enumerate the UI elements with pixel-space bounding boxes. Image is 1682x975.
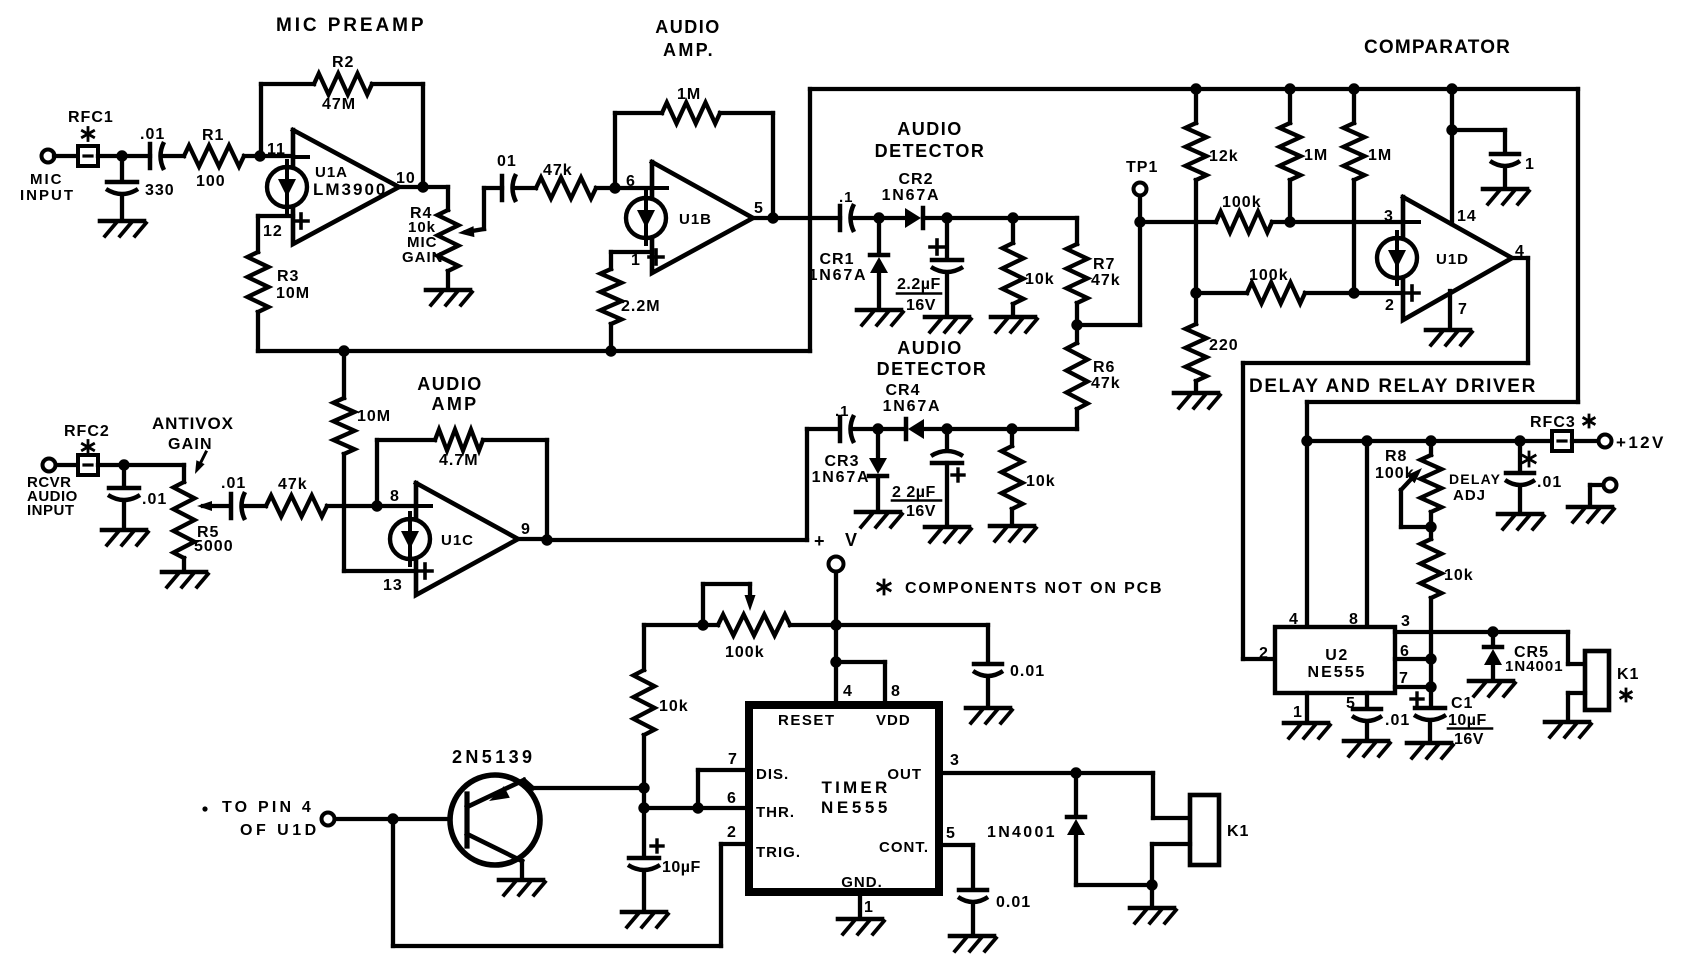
node pin4 junction — [830, 656, 841, 667]
resistor 1M a — [1280, 89, 1301, 222]
pin label 14 — [1457, 208, 1477, 225]
node emitter junction — [638, 782, 649, 793]
wire pin14 — [1450, 89, 1454, 224]
terminal RCVR input — [43, 459, 56, 472]
diode CR5 1N4001 — [1484, 632, 1502, 679]
capacitor .01 rcvr — [108, 465, 140, 528]
svg-text:16V: 16V — [1454, 731, 1484, 748]
svg-text:1N67A: 1N67A — [809, 267, 868, 284]
diode CR4 1N67A — [906, 419, 924, 439]
wire pin4 stub — [834, 625, 838, 705]
inductor RFC2 — [78, 455, 98, 475]
wire R2 feedback loop — [261, 84, 423, 187]
wire +V drop — [834, 572, 838, 625]
node 10k junction upper — [1007, 212, 1018, 223]
wire to R4 top — [446, 187, 450, 210]
svg-text:CR1: CR1 — [819, 251, 854, 268]
resistor 10k upper det — [1003, 218, 1024, 315]
pin label 5 — [754, 200, 764, 217]
pin label 6 timer — [727, 790, 737, 807]
svg-text:100: 100 — [196, 173, 226, 190]
label R8 100k — [1375, 448, 1415, 482]
svg-text:C1: C1 — [1451, 695, 1473, 712]
pin label 7 timer — [728, 751, 738, 768]
svg-text:ANTIVOX: ANTIVOX — [152, 414, 234, 433]
resistor 10k left — [634, 670, 655, 735]
svg-text:DELAY: DELAY — [1449, 471, 1501, 487]
section title AUDIO DETECTOR lower — [877, 338, 988, 379]
svg-text:DELAY AND RELAY DRIVER: DELAY AND RELAY DRIVER — [1249, 376, 1537, 397]
label 1M — [677, 86, 701, 103]
node cap1 junction — [1446, 124, 1457, 135]
svg-text:+12V: +12V — [1616, 433, 1666, 452]
label VDD — [876, 712, 911, 729]
wire pin8 stub — [836, 662, 885, 705]
svg-text:2N5139: 2N5139 — [452, 747, 535, 767]
svg-text:47k: 47k — [278, 476, 308, 493]
label .01 mic — [140, 126, 165, 143]
pin label 7 U1D — [1458, 301, 1468, 318]
label GND. — [841, 874, 883, 891]
ground under C1 — [1407, 743, 1453, 758]
label DIS. — [756, 766, 789, 783]
svg-text:330: 330 — [145, 182, 175, 199]
svg-text:U1B: U1B — [679, 211, 712, 228]
label 10k lower det — [1026, 473, 1056, 490]
asterisk RFC2 — [82, 441, 93, 454]
wire 100k b line — [1196, 291, 1403, 295]
svg-text:3: 3 — [950, 752, 960, 769]
pin label 8 U1C — [390, 488, 400, 505]
label THR. — [756, 804, 795, 821]
ground under 220 — [1174, 393, 1220, 408]
node A junction — [116, 150, 127, 161]
svg-text:THR.: THR. — [756, 804, 795, 821]
pin label 1 timer — [864, 899, 874, 916]
label 0.01 cont — [996, 894, 1031, 911]
wire CONT path — [939, 845, 973, 888]
wire 4.7M loop — [377, 440, 547, 540]
wire gnd post — [1590, 485, 1603, 505]
wire R4 to ground — [446, 271, 450, 288]
ground under cap 1 — [1483, 189, 1529, 204]
U1A minus — [296, 155, 308, 159]
section title MIC PREAMP — [276, 15, 426, 36]
svg-text:8: 8 — [390, 488, 400, 505]
label 10k upper det — [1025, 271, 1055, 288]
ic U2 NE555 box — [1275, 627, 1395, 693]
asterisk K1 — [1621, 689, 1631, 701]
label CR2 1N67A — [882, 171, 941, 204]
svg-text:RFC1: RFC1 — [68, 109, 114, 126]
node rail 12k — [1190, 83, 1201, 94]
wire U1B output — [753, 216, 840, 220]
resistor R2 47M — [314, 74, 372, 95]
wire U1C output — [518, 537, 547, 541]
pin label 13 — [383, 577, 403, 594]
svg-text:10M: 10M — [276, 285, 310, 302]
section title AUDIO AMP. — [655, 17, 721, 60]
svg-text:10µF: 10µF — [662, 859, 701, 876]
svg-text:.1: .1 — [835, 403, 850, 420]
U1D plus — [1405, 286, 1419, 300]
label R7 47k — [1091, 256, 1121, 289]
svg-text:3: 3 — [1401, 613, 1411, 630]
wire CR1 to ground — [877, 273, 881, 308]
R8 wiper — [1401, 468, 1431, 527]
svg-text:CR4: CR4 — [885, 382, 920, 399]
svg-text:2.2M: 2.2M — [621, 298, 661, 315]
node K1 bottom junction — [1146, 879, 1157, 890]
pin label 6 — [626, 173, 636, 190]
node pin14 rail — [1446, 83, 1457, 94]
wire pin12 to R3 — [258, 216, 293, 252]
svg-text:OF U1D: OF U1D — [240, 822, 320, 839]
pin label 10 — [396, 170, 416, 187]
label 0.01 top — [1010, 663, 1045, 680]
svg-text:11: 11 — [267, 141, 286, 158]
svg-text:1: 1 — [631, 252, 641, 269]
svg-text:1M: 1M — [677, 86, 701, 103]
transistor Q1 2N5139 — [450, 775, 540, 865]
svg-text:1: 1 — [864, 899, 874, 916]
pin label 2 — [1385, 297, 1395, 314]
label 10M bias — [357, 408, 391, 425]
svg-text:RESET: RESET — [778, 712, 836, 729]
label 2.2uF 16V lower — [892, 484, 941, 520]
asterisk .01 delay — [1523, 452, 1535, 466]
ground under 2.2uF upper — [925, 317, 971, 332]
svg-text:R2: R2 — [332, 54, 354, 71]
wire 47k to pin8 — [327, 504, 416, 508]
svg-text:OUT: OUT — [887, 766, 922, 783]
diode CR1 1N67A shunt — [870, 218, 888, 273]
resistor 2.2M — [601, 269, 622, 324]
pin label 3 U2 — [1401, 613, 1411, 630]
svg-text:5: 5 — [754, 200, 764, 217]
wire U1D output path — [1243, 258, 1528, 659]
svg-text:.01: .01 — [221, 475, 246, 492]
ground K1 bottom — [1130, 908, 1176, 923]
svg-text:TIMER: TIMER — [822, 778, 891, 797]
label R4 10k MIC GAIN — [402, 205, 444, 266]
label CONT. — [879, 839, 929, 856]
node U1B out junction — [767, 212, 778, 223]
node CR1 junction — [873, 212, 884, 223]
label CR3 1N67A — [812, 453, 871, 486]
node 10M rail junction — [338, 345, 349, 356]
svg-text:.01: .01 — [142, 491, 167, 508]
resistor 1M feedback — [662, 103, 720, 124]
section title DELAY AND RELAY DRIVER — [1249, 376, 1537, 397]
wire U2 pin6 stub — [1395, 657, 1431, 661]
label .1 lower — [835, 403, 850, 420]
wire K1 bottom lower lead — [1152, 844, 1190, 885]
svg-text:100k: 100k — [1249, 267, 1289, 284]
svg-text:AMP: AMP — [432, 394, 479, 414]
wire K1 ground stub — [1150, 885, 1154, 906]
capacitor 1 — [1452, 130, 1520, 187]
pin label 4 U1D — [1515, 243, 1525, 260]
wire pin8 drop — [1365, 441, 1369, 627]
node TP1 junction — [1134, 216, 1145, 227]
svg-text:16V: 16V — [906, 503, 936, 520]
wire U2 pin3 line — [1395, 632, 1585, 664]
label RFC1 — [68, 109, 114, 126]
resistor 12k — [1186, 89, 1207, 324]
label R1 — [196, 127, 226, 190]
svg-text:7: 7 — [1399, 670, 1409, 687]
inductor RFC3 — [1552, 431, 1572, 451]
svg-text:CR3: CR3 — [824, 453, 859, 470]
svg-text:5000: 5000 — [194, 538, 234, 555]
label cap 1 — [1525, 156, 1535, 173]
wire 10k to cap — [642, 735, 646, 856]
wire 2.2M to bias rail — [609, 324, 613, 351]
wire to R7 — [1075, 218, 1079, 244]
ground 2.2uF lower — [925, 527, 971, 542]
wire cap to 47k lower — [245, 504, 266, 508]
label +12V — [1616, 433, 1666, 452]
wire 10k left drop — [642, 625, 646, 670]
svg-text:DETECTOR: DETECTOR — [875, 141, 986, 161]
svg-text:ADJ: ADJ — [1453, 487, 1486, 504]
svg-text:0.01: 0.01 — [1010, 663, 1045, 680]
svg-text:2: 2 — [1259, 645, 1269, 662]
top supply rail wire — [810, 87, 1578, 91]
ground U2 pin5 — [1344, 741, 1390, 756]
resistor R1 — [184, 146, 244, 167]
diode CR2 1N67A — [905, 208, 923, 228]
U1C minus — [419, 504, 431, 508]
op-amp U1A — [267, 130, 399, 244]
capacitor 10uF timer — [628, 840, 663, 910]
label 2.2uF 16V upper — [897, 276, 941, 314]
terminal +12V — [1599, 435, 1612, 448]
terminal to pin4 — [322, 813, 335, 826]
node pin11 junction — [254, 150, 265, 161]
svg-text:U1D: U1D — [1436, 251, 1469, 268]
wire 100k pot line — [644, 623, 836, 627]
label 2.2M — [621, 298, 661, 315]
wire TRIG path — [393, 819, 749, 946]
ground 10k lower — [990, 526, 1036, 541]
node U1C out junction — [541, 534, 552, 545]
node U2 pin7 — [1425, 681, 1436, 692]
svg-text:14: 14 — [1457, 208, 1477, 225]
wire DIS bracket — [698, 770, 749, 808]
ground 0.01 cont — [950, 936, 996, 951]
svg-text:6: 6 — [626, 173, 636, 190]
wire RFC2 to R5 — [98, 465, 184, 482]
pin label 8 U2 — [1349, 611, 1359, 628]
svg-text:1N67A: 1N67A — [883, 398, 942, 415]
node 100k pot right — [830, 619, 841, 630]
ground post — [1568, 507, 1614, 522]
node base junction — [387, 813, 398, 824]
label 1M b — [1368, 147, 1392, 164]
op-amp U1B — [626, 162, 753, 273]
ground collector — [499, 880, 545, 895]
node 1M a bottom — [1284, 216, 1295, 227]
svg-text:.1: .1 — [839, 189, 854, 206]
node DIS THR junction — [692, 802, 703, 813]
relay K1 bottom box — [1190, 795, 1219, 865]
label 1N4001 — [987, 824, 1057, 841]
wire K1 lower lead — [1568, 693, 1585, 720]
label 330 — [145, 182, 175, 199]
capacitor .01 delay — [1505, 441, 1535, 512]
svg-text:TRIG.: TRIG. — [756, 844, 801, 861]
svg-text:10M: 10M — [357, 408, 391, 425]
wire to 0.01 — [836, 625, 988, 662]
svg-text:8: 8 — [1349, 611, 1359, 628]
svg-text:10k: 10k — [659, 698, 689, 715]
relay K1 right box — [1585, 651, 1609, 710]
R4 wiper arrow — [458, 188, 502, 237]
pin label 4 U2 — [1289, 611, 1299, 628]
node 1M b bottom — [1348, 287, 1359, 298]
svg-text:AMP.: AMP. — [663, 40, 715, 60]
node R7 R6 junction — [1071, 319, 1082, 330]
label 10uF — [662, 859, 701, 876]
svg-text:12k: 12k — [1209, 148, 1239, 165]
svg-text:LM3900: LM3900 — [313, 180, 387, 199]
svg-text:NE555: NE555 — [1308, 664, 1367, 681]
label .01 antivox — [221, 475, 246, 492]
node U1A out junction — [417, 181, 428, 192]
capacitor 0.01 top — [973, 664, 1003, 706]
pin label 8 timer — [891, 683, 901, 700]
ground CR3 — [856, 512, 902, 527]
node rail pin4 — [1301, 435, 1312, 446]
node rail R8 — [1425, 435, 1436, 446]
ic TIMER NE555 box — [749, 705, 939, 892]
svg-text:10k: 10k — [1025, 271, 1055, 288]
svg-text:47M: 47M — [322, 96, 356, 113]
svg-text:7: 7 — [728, 751, 738, 768]
wire emitter — [524, 780, 644, 788]
label 4.7M — [439, 452, 479, 469]
wire diode bottom — [1076, 883, 1152, 887]
R5 wiper arrow — [197, 501, 228, 511]
wire CR3 ground — [876, 478, 880, 510]
wire 100k a line — [1140, 220, 1403, 224]
wire U2 pin1 gnd — [1305, 693, 1309, 721]
svg-text:GND.: GND. — [841, 874, 883, 891]
svg-text:K1: K1 — [1227, 823, 1249, 840]
resistor 10k delay — [1421, 527, 1442, 687]
ground under CR5 — [1469, 681, 1515, 696]
wire mic input to RFC1 — [54, 154, 78, 158]
svg-text:COMPONENTS NOT ON PCB: COMPONENTS NOT ON PCB — [905, 580, 1163, 597]
node CR5 junction — [1487, 626, 1498, 637]
node 100k pot left — [697, 619, 708, 630]
svg-text:16V: 16V — [906, 297, 936, 314]
pin label 1 — [631, 252, 641, 269]
U1B plus — [649, 250, 663, 264]
wire THR line — [644, 806, 749, 810]
svg-text:5: 5 — [946, 825, 956, 842]
label 10k delay — [1444, 567, 1474, 584]
resistor R4 pot — [438, 210, 459, 271]
wire RFC3 to +12V — [1572, 439, 1598, 443]
svg-text:4.7M: 4.7M — [439, 452, 479, 469]
node U2 pin6 — [1425, 653, 1436, 664]
label .1 upper — [839, 189, 854, 206]
wire GND pin1 timer — [858, 892, 862, 917]
label 100k b — [1249, 267, 1289, 284]
resistor 10M bias — [334, 351, 355, 571]
capacitor 330 — [106, 156, 138, 219]
label RCVR AUDIO INPUT — [27, 474, 78, 519]
label .01 pin5 — [1385, 712, 1410, 729]
svg-text:8: 8 — [891, 683, 901, 700]
label components note — [878, 580, 1164, 597]
svg-text:1N4001: 1N4001 — [987, 824, 1057, 841]
node 10k lower junction — [1006, 423, 1017, 434]
capacitor 2.2uF upper — [930, 218, 963, 315]
pin label 1 U2 — [1293, 704, 1303, 721]
capacitor C1 10uF — [1411, 687, 1446, 741]
svg-text:2: 2 — [727, 824, 737, 841]
svg-text:1N4001: 1N4001 — [1505, 658, 1564, 675]
wire node to TP1 line — [1077, 222, 1140, 325]
wire CR4 to 10k lower — [924, 427, 1077, 431]
svg-text:47k: 47k — [1091, 375, 1121, 392]
svg-text:+: + — [814, 531, 826, 551]
wire top rail right side down — [1307, 89, 1578, 441]
terminal gnd post — [1604, 479, 1617, 492]
wire cap to R1 — [164, 154, 184, 158]
node rail 1M a — [1284, 83, 1295, 94]
svg-text:2 2µF: 2 2µF — [892, 484, 936, 501]
capacitor .01 antivox — [231, 492, 245, 520]
wire CR2 to 10k — [923, 216, 1077, 220]
node R8 bottom — [1425, 521, 1436, 532]
wire cap to CR4 — [854, 427, 906, 431]
svg-text:1M: 1M — [1368, 147, 1392, 164]
wire 1M feedback loop — [615, 113, 773, 218]
wire RFC1 to node A — [98, 154, 150, 158]
wire R3 to bias rail — [256, 312, 260, 351]
svg-text:10k: 10k — [1444, 567, 1474, 584]
svg-text:DIS.: DIS. — [756, 766, 789, 783]
svg-text:.01: .01 — [1385, 712, 1410, 729]
wire R5 ground — [182, 558, 186, 570]
ground K1 right — [1545, 722, 1591, 737]
resistor R3 10M — [248, 252, 269, 312]
label .01 rcvr — [142, 491, 167, 508]
label U1C — [441, 532, 474, 549]
wire U2 pin7 stub — [1395, 685, 1431, 689]
svg-text:R6: R6 — [1093, 359, 1115, 376]
wire R7 to node — [1075, 303, 1079, 325]
U1D minus — [1407, 220, 1419, 224]
node pin6 junction — [609, 182, 620, 193]
label RFC3 — [1530, 414, 1576, 431]
resistor R7 47k — [1067, 244, 1088, 303]
svg-text:1N67A: 1N67A — [812, 469, 871, 486]
svg-text:.01: .01 — [1537, 474, 1562, 491]
svg-text:INPUT: INPUT — [20, 187, 75, 204]
pin label 6 U2 — [1400, 643, 1410, 660]
svg-text:U1C: U1C — [441, 532, 474, 549]
svg-text:1M: 1M — [1304, 147, 1328, 164]
label K1 right — [1617, 666, 1639, 683]
node 2.2uF junction — [941, 212, 952, 223]
resistor 100k a — [1216, 212, 1272, 233]
